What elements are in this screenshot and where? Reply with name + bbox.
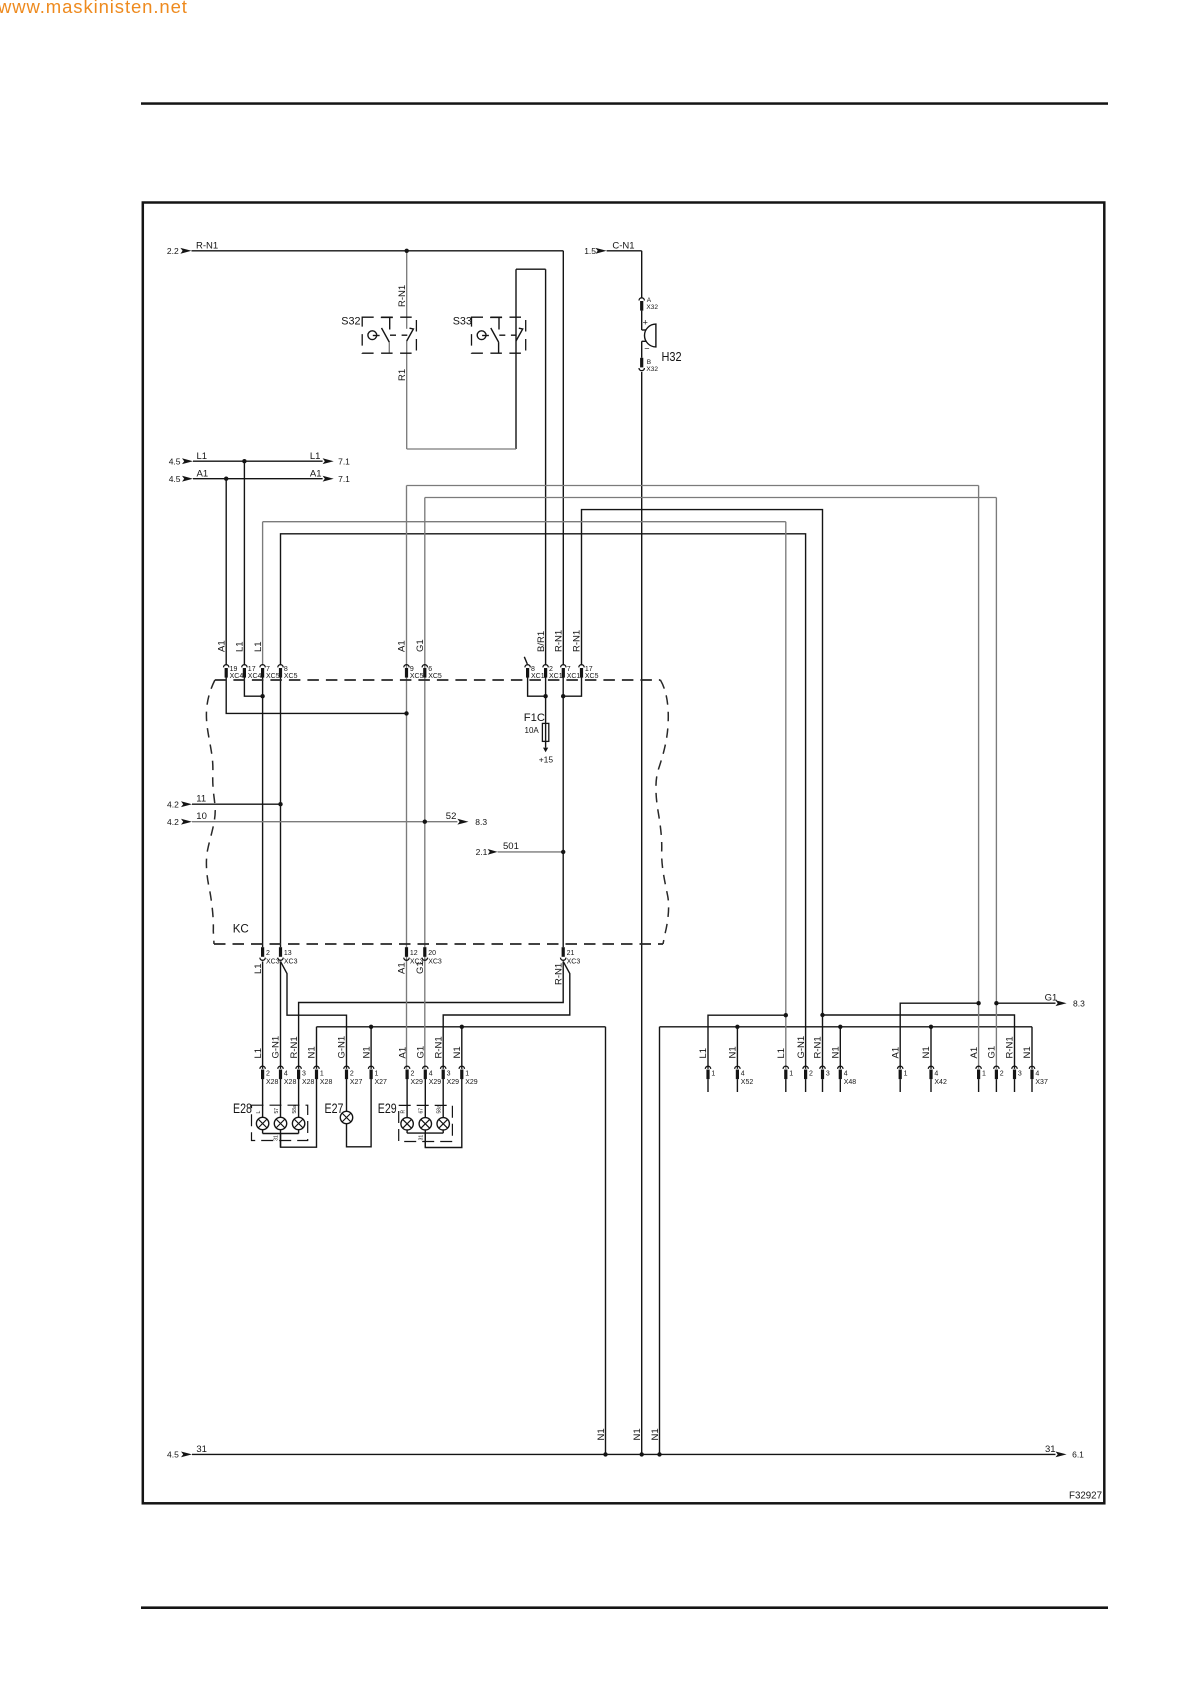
svg-text:1: 1: [320, 1070, 324, 1077]
svg-text:XC3: XC3: [284, 958, 298, 965]
svg-text:XC3: XC3: [567, 958, 581, 965]
svg-text:1: 1: [982, 1070, 986, 1077]
svg-text:2: 2: [549, 666, 553, 673]
svg-text:4.2: 4.2: [167, 799, 179, 809]
svg-text:4.5: 4.5: [167, 1450, 179, 1460]
svg-text:11: 11: [196, 794, 206, 805]
svg-text:H32: H32: [662, 349, 682, 364]
svg-text:7: 7: [567, 666, 571, 673]
svg-text:G-N1: G-N1: [271, 1036, 282, 1059]
svg-text:R: R: [401, 1110, 407, 1114]
svg-text:R-N1: R-N1: [433, 1036, 444, 1058]
svg-text:A1: A1: [397, 640, 408, 652]
svg-text:4: 4: [284, 1070, 288, 1077]
svg-text:N1: N1: [650, 1428, 661, 1440]
svg-text:XC3: XC3: [428, 958, 442, 965]
svg-text:B: B: [647, 359, 651, 366]
svg-text:3: 3: [826, 1070, 830, 1077]
svg-text:3: 3: [302, 1070, 306, 1077]
svg-text:A1: A1: [216, 640, 227, 652]
svg-text:10A: 10A: [525, 726, 540, 735]
svg-text:20: 20: [428, 950, 436, 957]
svg-text:−: −: [644, 344, 649, 354]
svg-text:6: 6: [428, 666, 432, 673]
svg-text:8.3: 8.3: [1073, 999, 1085, 1009]
svg-text:X29: X29: [429, 1079, 442, 1086]
svg-text:A1: A1: [310, 469, 322, 480]
svg-text:XC1: XC1: [567, 673, 581, 680]
svg-text:19: 19: [230, 666, 238, 673]
svg-text:10: 10: [196, 811, 207, 822]
svg-text:A: A: [647, 297, 652, 304]
svg-text:4.5: 4.5: [169, 474, 181, 484]
svg-text:N1: N1: [921, 1046, 932, 1058]
svg-text:R-N1: R-N1: [553, 963, 564, 985]
svg-text:R-N1: R-N1: [196, 240, 218, 251]
svg-text:A1: A1: [397, 1047, 408, 1059]
svg-text:G-N1: G-N1: [796, 1036, 807, 1059]
svg-text:E29: E29: [378, 1101, 397, 1116]
svg-text:X42: X42: [934, 1079, 947, 1086]
svg-text:X27: X27: [375, 1079, 388, 1086]
svg-text:2.1: 2.1: [476, 847, 488, 857]
svg-text:N1: N1: [728, 1046, 739, 1058]
svg-text:G1: G1: [987, 1046, 998, 1059]
svg-text:31: 31: [1045, 1444, 1056, 1455]
svg-text:N1: N1: [831, 1046, 842, 1058]
svg-text:S32: S32: [341, 316, 360, 328]
svg-text:1: 1: [465, 1070, 469, 1077]
svg-text:N1: N1: [452, 1046, 463, 1058]
svg-text:31: 31: [419, 1135, 425, 1141]
svg-text:KC: KC: [233, 922, 249, 936]
svg-text:2.2: 2.2: [167, 246, 179, 256]
svg-text:X52: X52: [741, 1079, 754, 1086]
svg-text:X28: X28: [302, 1079, 315, 1086]
svg-text:L1: L1: [776, 1048, 787, 1059]
svg-text:7.1: 7.1: [338, 456, 350, 466]
svg-text:2: 2: [1000, 1070, 1004, 1077]
svg-text:4: 4: [844, 1070, 848, 1077]
svg-text:7: 7: [266, 666, 270, 673]
svg-text:+15: +15: [539, 755, 554, 765]
svg-text:3: 3: [1018, 1070, 1022, 1077]
svg-text:X29: X29: [447, 1079, 460, 1086]
svg-text:XC3: XC3: [266, 958, 280, 965]
svg-text:A1: A1: [969, 1047, 980, 1059]
svg-text:XC5: XC5: [428, 673, 442, 680]
svg-text:R-N1: R-N1: [1005, 1036, 1016, 1058]
svg-text:4.2: 4.2: [167, 817, 179, 827]
svg-text:4: 4: [1035, 1070, 1039, 1077]
svg-text:R-N1: R-N1: [289, 1036, 300, 1058]
svg-text:G1: G1: [415, 961, 426, 974]
svg-text:7.1: 7.1: [338, 474, 350, 484]
svg-text:F1C: F1C: [524, 712, 545, 724]
svg-text:X29: X29: [411, 1079, 424, 1086]
svg-text:A1: A1: [197, 469, 209, 480]
svg-text:R1: R1: [397, 369, 408, 381]
svg-text:R-N1: R-N1: [572, 630, 583, 652]
svg-text:4: 4: [934, 1070, 938, 1077]
svg-text:E28: E28: [233, 1101, 252, 1116]
svg-text:XC5: XC5: [410, 673, 424, 680]
svg-text:31: 31: [196, 1444, 207, 1455]
svg-text:N1: N1: [632, 1428, 643, 1440]
svg-text:G1: G1: [1045, 993, 1058, 1004]
svg-text:XC5: XC5: [266, 673, 280, 680]
svg-text:L1: L1: [253, 641, 264, 652]
svg-text:4: 4: [741, 1070, 745, 1077]
svg-text:A1: A1: [890, 1047, 901, 1059]
svg-text:9: 9: [410, 666, 414, 673]
svg-text:R-N1: R-N1: [554, 630, 565, 652]
svg-text:X27: X27: [350, 1079, 363, 1086]
svg-text:21: 21: [567, 950, 575, 957]
svg-text:G1: G1: [415, 639, 426, 652]
svg-text:L1: L1: [197, 451, 208, 462]
svg-text:2: 2: [266, 950, 270, 957]
svg-text:X28: X28: [320, 1079, 333, 1086]
svg-text:52: 52: [446, 811, 457, 822]
svg-text:X32: X32: [646, 304, 658, 311]
svg-text:8: 8: [531, 666, 535, 673]
svg-text:2: 2: [266, 1070, 270, 1077]
svg-text:N1: N1: [307, 1046, 318, 1058]
svg-text:S33: S33: [453, 316, 472, 328]
svg-text:X28: X28: [284, 1079, 297, 1086]
svg-text:XC4: XC4: [248, 673, 262, 680]
svg-text:F32927: F32927: [1069, 1491, 1102, 1502]
svg-text:3: 3: [447, 1070, 451, 1077]
svg-text:XC1: XC1: [531, 673, 545, 680]
svg-text:R-N1: R-N1: [813, 1036, 824, 1058]
svg-text:B/R1: B/R1: [536, 631, 547, 652]
svg-text:C-N1: C-N1: [612, 240, 634, 251]
svg-text:67: 67: [419, 1108, 425, 1114]
svg-text:6.1: 6.1: [1072, 1450, 1084, 1460]
svg-text:N1: N1: [361, 1046, 372, 1058]
svg-text:17: 17: [585, 666, 593, 673]
svg-text:12: 12: [410, 950, 418, 957]
svg-text:X32: X32: [646, 366, 658, 373]
svg-text:58a: 58a: [292, 1105, 298, 1114]
svg-text:+: +: [643, 318, 648, 328]
svg-text:2: 2: [809, 1070, 813, 1077]
svg-text:L1: L1: [253, 963, 264, 974]
svg-text:2: 2: [350, 1070, 354, 1077]
svg-text:4: 4: [429, 1070, 433, 1077]
svg-text:L1: L1: [235, 641, 246, 652]
svg-text:1: 1: [711, 1070, 715, 1077]
svg-text:R-N1: R-N1: [397, 285, 408, 307]
svg-text:XC1: XC1: [549, 673, 563, 680]
svg-text:L1: L1: [253, 1048, 264, 1059]
svg-text:G1: G1: [416, 1046, 427, 1059]
svg-text:31: 31: [274, 1135, 280, 1141]
svg-text:XC5: XC5: [284, 673, 298, 680]
svg-text:57: 57: [274, 1108, 280, 1114]
svg-text:2: 2: [411, 1070, 415, 1077]
svg-text:X29: X29: [465, 1079, 478, 1086]
svg-text:E27: E27: [325, 1101, 344, 1116]
svg-text:8.3: 8.3: [475, 817, 487, 827]
svg-text:G-N1: G-N1: [337, 1036, 348, 1059]
svg-text:L1: L1: [310, 451, 321, 462]
svg-text:1.5: 1.5: [584, 246, 596, 256]
svg-text:8: 8: [284, 666, 288, 673]
svg-text:XC5: XC5: [585, 673, 599, 680]
svg-text:N1: N1: [596, 1428, 607, 1440]
svg-text:N1: N1: [1022, 1046, 1033, 1058]
svg-text:X37: X37: [1035, 1079, 1048, 1086]
svg-text:501: 501: [503, 841, 519, 852]
svg-text:1: 1: [375, 1070, 379, 1077]
svg-text:4.5: 4.5: [169, 456, 181, 466]
svg-text:1: 1: [904, 1070, 908, 1077]
svg-text:X48: X48: [844, 1079, 857, 1086]
svg-text:13: 13: [284, 950, 292, 957]
svg-text:X28: X28: [266, 1079, 279, 1086]
svg-text:L1: L1: [698, 1048, 709, 1059]
svg-text:17: 17: [248, 666, 256, 673]
svg-text:L: L: [256, 1111, 262, 1114]
svg-text:XC4: XC4: [230, 673, 244, 680]
svg-text:58a: 58a: [437, 1105, 443, 1114]
svg-text:A1: A1: [397, 962, 408, 974]
svg-text:1: 1: [789, 1070, 793, 1077]
